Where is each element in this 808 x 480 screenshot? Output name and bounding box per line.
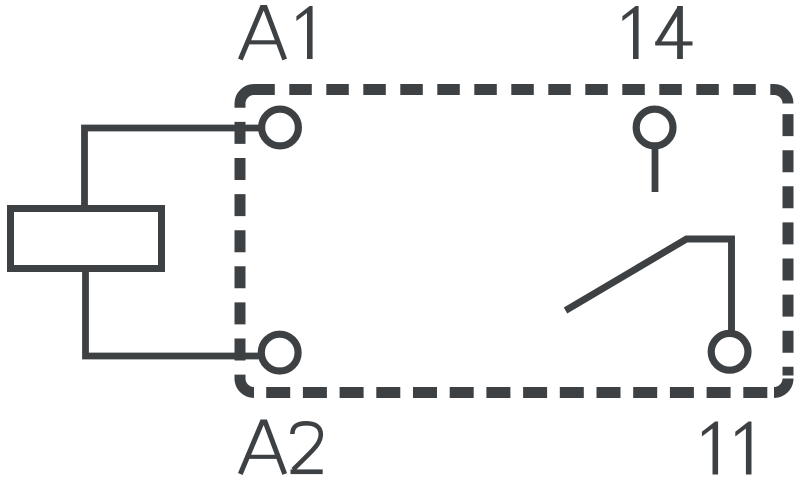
wire coil to pin A1 — [85, 128, 264, 209]
label A2 — [240, 422, 322, 474]
switch contact blade and wire to pin 11 — [566, 239, 732, 334]
corner bottom-right — [774, 379, 788, 393]
terminal pin 14 — [636, 109, 673, 146]
wire top border dashed — [254, 84, 774, 95]
terminal pin 11 — [711, 333, 748, 370]
wire pin 14 stub — [652, 147, 659, 192]
label A1 — [240, 6, 312, 60]
terminal pin A1 — [262, 109, 299, 146]
corner top-left — [240, 90, 254, 108]
corner bottom-left — [240, 379, 254, 393]
wire left border dashed — [235, 108, 246, 379]
label 11 — [702, 422, 752, 475]
relay body dashed outline K1 — [240, 90, 788, 393]
corner top-right — [774, 90, 788, 104]
coil L1 — [11, 209, 162, 269]
wire coil to pin A2 — [86, 266, 264, 356]
label 14 — [622, 6, 692, 59]
wire bottom border dashed — [254, 387, 774, 398]
terminal pin A2 — [261, 334, 298, 371]
wire right border dashed — [783, 104, 794, 376]
